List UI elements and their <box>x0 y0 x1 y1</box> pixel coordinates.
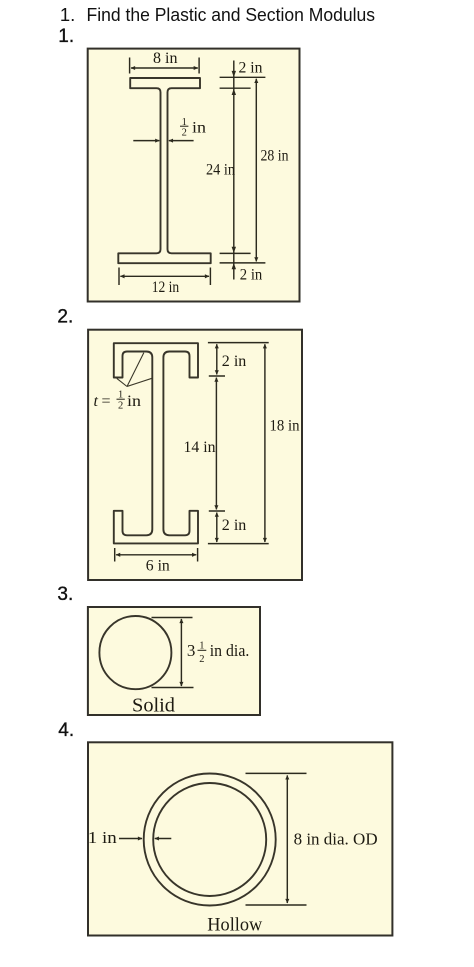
svg-text:t: t <box>94 393 99 410</box>
svg-text:Find the Plastic and Section M: Find the Plastic and Section Modulus <box>87 4 376 25</box>
svg-text:in: in <box>127 393 141 410</box>
svg-text:2: 2 <box>182 128 187 139</box>
svg-text:2 in: 2 in <box>222 517 247 534</box>
svg-text:in dia.: in dia. <box>210 641 250 660</box>
svg-text:2: 2 <box>118 400 123 411</box>
svg-text:1.: 1. <box>58 26 74 47</box>
svg-text:12 in: 12 in <box>152 279 180 296</box>
svg-text:1 in: 1 in <box>88 828 118 847</box>
svg-text:2: 2 <box>199 654 204 665</box>
svg-text:24 in: 24 in <box>206 162 235 179</box>
svg-text:8 in dia. OD: 8 in dia. OD <box>294 829 378 848</box>
svg-text:28 in: 28 in <box>261 148 289 165</box>
svg-text:2 in: 2 in <box>222 353 247 370</box>
svg-text:2 in: 2 in <box>240 267 262 284</box>
svg-text:=: = <box>102 393 111 410</box>
svg-text:14 in: 14 in <box>184 439 216 456</box>
svg-text:3.: 3. <box>57 584 73 605</box>
svg-text:6 in: 6 in <box>146 558 170 575</box>
svg-text:8 in: 8 in <box>153 50 178 67</box>
svg-text:Solid: Solid <box>132 695 175 717</box>
svg-text:18 in: 18 in <box>270 418 300 435</box>
svg-text:3: 3 <box>187 641 196 660</box>
svg-text:Hollow: Hollow <box>207 915 262 936</box>
svg-text:2 in: 2 in <box>239 60 263 77</box>
svg-text:1: 1 <box>199 640 204 651</box>
svg-text:4.: 4. <box>58 720 74 741</box>
svg-text:1.: 1. <box>60 4 75 25</box>
svg-text:in: in <box>192 119 206 136</box>
svg-text:2.: 2. <box>57 307 73 328</box>
